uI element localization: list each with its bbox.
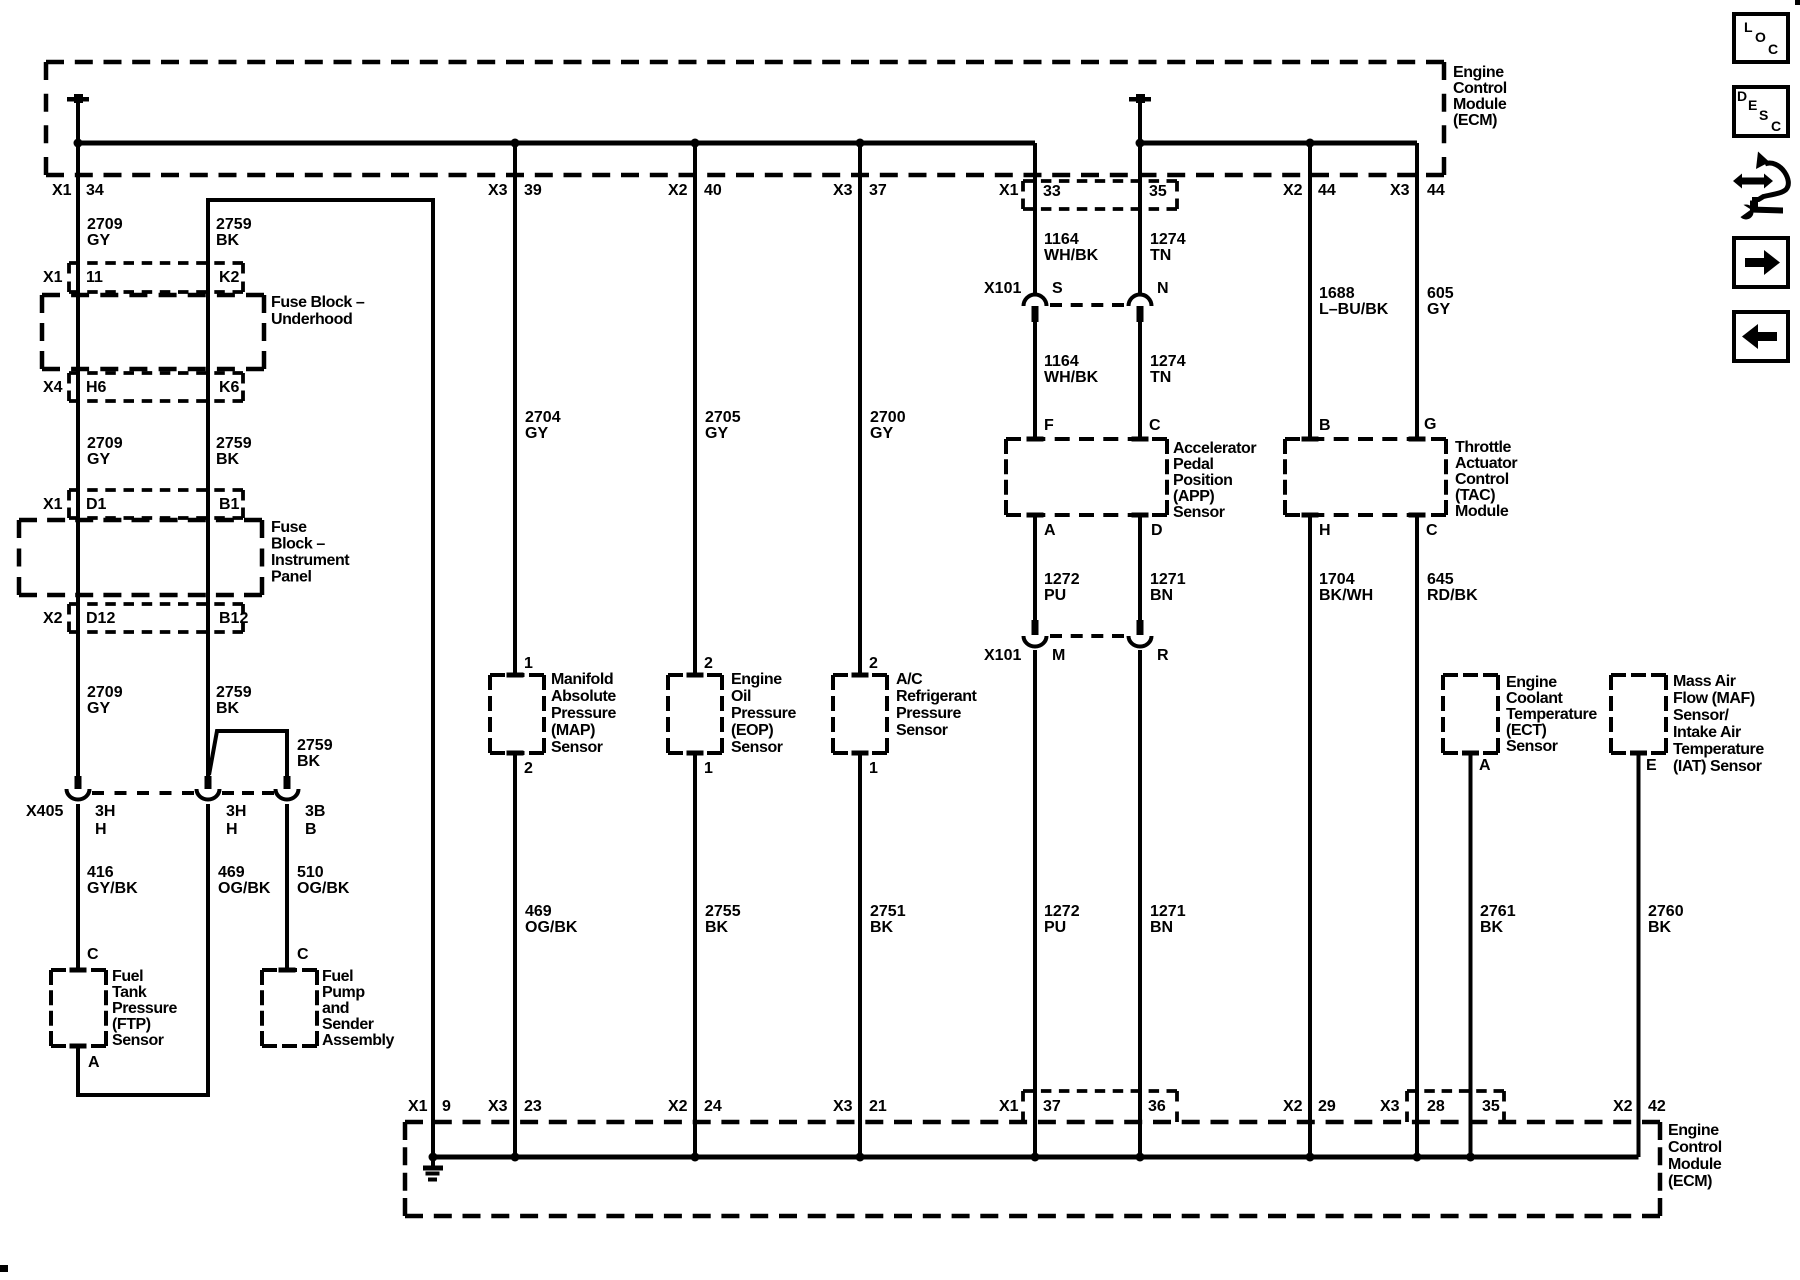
- svg-text:2761: 2761: [1480, 903, 1516, 920]
- svg-text:X3: X3: [488, 1098, 508, 1115]
- connector row X2-D12 / B12 dotted box: [43, 604, 248, 632]
- pin X1 34 (ECM): [52, 182, 104, 199]
- svg-text:X2: X2: [43, 610, 63, 627]
- label 1271 BN (lower): [1150, 903, 1186, 936]
- svg-text:2: 2: [524, 760, 533, 777]
- svg-text:1272: 1272: [1044, 903, 1080, 920]
- label 2761 BK: [1480, 903, 1516, 936]
- pin X2 29 (ECM bottom): [1283, 1098, 1336, 1115]
- svg-text:(APP): (APP): [1173, 488, 1214, 505]
- svg-text:23: 23: [524, 1098, 542, 1115]
- svg-text:X3: X3: [1390, 182, 1410, 199]
- label Engine Control Module (ECM) top: [1453, 64, 1507, 129]
- svg-text:GY: GY: [87, 232, 110, 249]
- label 1164 WH/BK (upper): [1044, 231, 1099, 264]
- Fuse Block - Underhood dashed box: [42, 295, 264, 369]
- Throttle Actuator Control (TAC) Module dashed box: [1285, 437, 1446, 518]
- label Engine Oil Pressure (EOP) Sensor: [731, 671, 796, 756]
- svg-text:BK: BK: [1648, 919, 1672, 936]
- wire 469 OG/BK from X405 to FTP sensor pin A: [78, 804, 208, 1095]
- svg-text:G: G: [1424, 416, 1436, 433]
- label Fuse Block - Underhood: [271, 294, 365, 328]
- svg-text:M: M: [1052, 647, 1065, 664]
- label X405: [26, 803, 63, 820]
- svg-text:K6: K6: [219, 379, 240, 396]
- label pin E (MAF): [1646, 757, 1657, 774]
- svg-text:X405: X405: [26, 803, 63, 820]
- svg-text:33: 33: [1043, 183, 1061, 200]
- svg-text:B1: B1: [219, 496, 240, 513]
- wire 1704 BK/WH from TAC pin H to ECM X2-29: [1308, 515, 1312, 1157]
- svg-text:24: 24: [704, 1098, 722, 1115]
- svg-text:A: A: [1044, 522, 1056, 539]
- label Engine Control Module (ECM) bottom: [1668, 1122, 1722, 1190]
- junction dots on ground bus: [429, 1153, 1476, 1162]
- svg-text:C: C: [1149, 417, 1161, 434]
- connector X405 pin H (left) male and female halves: [67, 776, 90, 800]
- svg-text:35: 35: [1149, 183, 1167, 200]
- svg-text:Coolant: Coolant: [1506, 690, 1564, 707]
- pin X3 39 (ECM): [488, 182, 542, 199]
- svg-text:469: 469: [525, 903, 552, 920]
- Fuse Block - Instrument Panel dashed box: [19, 520, 262, 595]
- label 2709 GY (lower): [87, 684, 123, 717]
- svg-text:40: 40: [704, 182, 722, 199]
- connector X405 pin H (middle) male and female halves: [197, 776, 220, 800]
- svg-text:Sensor: Sensor: [896, 722, 948, 739]
- svg-text:WH/BK: WH/BK: [1044, 369, 1099, 386]
- svg-text:H: H: [1319, 522, 1331, 539]
- wire 2705 GY from ECM X2-40 to EOP sensor: [693, 143, 697, 675]
- Engine Coolant Temperature (ECT) Sensor dashed box: [1443, 675, 1498, 756]
- svg-text:Sensor/: Sensor/: [1673, 707, 1730, 724]
- label pin C (TAC): [1426, 522, 1438, 539]
- label pin 1 (A/C): [869, 760, 878, 777]
- svg-text:2759: 2759: [216, 435, 252, 452]
- svg-text:L–BU/BK: L–BU/BK: [1319, 301, 1389, 318]
- svg-text:1164: 1164: [1044, 353, 1079, 370]
- svg-text:TN: TN: [1150, 369, 1171, 386]
- svg-text:Assembly: Assembly: [322, 1032, 395, 1049]
- svg-text:C: C: [1426, 522, 1438, 539]
- svg-text:Fuel: Fuel: [322, 968, 353, 985]
- svg-text:(IAT) Sensor: (IAT) Sensor: [1673, 758, 1762, 775]
- svg-text:35: 35: [1482, 1098, 1500, 1115]
- wire 1272 PU from APP pin A (upper): [1033, 515, 1037, 620]
- svg-text:RD/BK: RD/BK: [1427, 587, 1478, 604]
- label 2709 GY (upper): [87, 216, 123, 249]
- label 2704 GY: [525, 409, 561, 442]
- label 2759 BK (middle): [216, 435, 252, 468]
- svg-text:X1: X1: [999, 182, 1019, 199]
- svg-text:605: 605: [1427, 285, 1454, 302]
- wire 1164 WH/BK (lower) to APP pin F: [1033, 322, 1037, 439]
- svg-text:Pump: Pump: [322, 984, 365, 1001]
- svg-text:510: 510: [297, 864, 324, 881]
- wire 1688 L-BU/BK from ECM X2-44 to TAC pin B: [1308, 143, 1312, 439]
- svg-text:(ECT): (ECT): [1506, 722, 1547, 739]
- svg-text:Control: Control: [1668, 1139, 1722, 1156]
- svg-text:2705: 2705: [705, 409, 741, 426]
- svg-text:1688: 1688: [1319, 285, 1355, 302]
- svg-text:Pressure: Pressure: [551, 705, 616, 722]
- label Fuel Pump and Sender Assembly: [322, 968, 395, 1049]
- svg-text:Sensor: Sensor: [1506, 738, 1558, 755]
- svg-text:42: 42: [1648, 1098, 1666, 1115]
- Accelerator Pedal Position (APP) Sensor dashed box: [1006, 437, 1167, 518]
- svg-text:37: 37: [1043, 1098, 1061, 1115]
- svg-text:Fuse: Fuse: [271, 519, 307, 536]
- pin X3 23 (ECM bottom): [488, 1098, 542, 1115]
- svg-text:Engine: Engine: [1453, 64, 1504, 81]
- wire 2759 BK branch to pin 3B: [209, 731, 287, 776]
- label 469 OG/BK (MAP): [525, 903, 578, 936]
- svg-text:E: E: [1748, 97, 1757, 113]
- svg-text:Underhood: Underhood: [271, 311, 352, 328]
- connector X405 dashed link line: [92, 791, 274, 795]
- svg-text:X3: X3: [1380, 1098, 1400, 1115]
- label X101 (upper): [984, 280, 1021, 297]
- label 3B B (right): [305, 803, 325, 838]
- wire 1164 WH/BK from ECM X1-33 (upper): [1033, 143, 1037, 296]
- svg-text:Intake Air: Intake Air: [1673, 724, 1741, 741]
- label Fuse Block - Instrument Panel: [271, 519, 350, 586]
- label pin D (APP): [1151, 522, 1163, 539]
- icon wrench with arrows: [1733, 152, 1788, 222]
- svg-text:X1: X1: [52, 182, 72, 199]
- Mass Air Flow (MAF) / IAT Sensor dashed box: [1611, 675, 1666, 756]
- svg-text:BK: BK: [216, 451, 240, 468]
- label 2760 BK: [1648, 903, 1684, 936]
- power feed symbol B+ right: [1129, 94, 1151, 143]
- label 416 GY/BK: [87, 864, 138, 897]
- svg-text:GY: GY: [1427, 301, 1450, 318]
- svg-text:O: O: [1755, 29, 1766, 45]
- svg-text:H: H: [226, 821, 238, 838]
- svg-text:Actuator: Actuator: [1455, 455, 1517, 472]
- svg-text:1271: 1271: [1150, 903, 1186, 920]
- svg-text:1: 1: [869, 760, 878, 777]
- svg-text:A: A: [88, 1054, 100, 1071]
- svg-text:2755: 2755: [705, 903, 741, 920]
- svg-text:BK: BK: [216, 700, 240, 717]
- svg-text:2751: 2751: [870, 903, 906, 920]
- wire 1271 BN from APP pin D (upper): [1138, 515, 1142, 620]
- label 2759 BK (lower): [216, 684, 252, 717]
- wire 1274 TN from ECM 35 (upper): [1138, 143, 1142, 296]
- svg-text:2704: 2704: [525, 409, 561, 426]
- pin X2 40 (ECM): [668, 182, 722, 199]
- wire 2755 BK from EOP sensor to ECM X2-24: [693, 753, 697, 1157]
- label Throttle Actuator Control (TAC) Module: [1455, 439, 1517, 520]
- label 605 GY: [1427, 285, 1454, 318]
- label 645 RD/BK: [1427, 571, 1478, 604]
- svg-text:BK/WH: BK/WH: [1319, 587, 1373, 604]
- icon box arrow right: [1734, 238, 1788, 287]
- wire 2700 GY from ECM X3-37 to A/C pressure sensor: [858, 143, 862, 675]
- label 2759 BK (branch): [297, 737, 333, 770]
- svg-text:Absolute: Absolute: [551, 688, 616, 705]
- wire 2751 BK from A/C sensor to ECM X3-21: [858, 753, 862, 1157]
- svg-text:C: C: [297, 946, 309, 963]
- svg-text:1274: 1274: [1150, 353, 1186, 370]
- page corner mark bottom left: [0, 1265, 8, 1272]
- svg-text:C: C: [1771, 118, 1781, 134]
- svg-text:Oil: Oil: [731, 688, 751, 705]
- label 1704 BK/WH: [1319, 571, 1373, 604]
- label pin C (FTP): [87, 946, 99, 963]
- pin X3 37 (ECM): [833, 182, 887, 199]
- svg-text:X2: X2: [1283, 1098, 1303, 1115]
- svg-text:Accelerator: Accelerator: [1173, 440, 1256, 457]
- svg-text:Module: Module: [1668, 1156, 1722, 1173]
- label pin C (fuel pump): [297, 946, 309, 963]
- svg-text:Panel: Panel: [271, 569, 311, 586]
- pin X1 33 and 35 (ECM) with dotted connector box: [999, 181, 1177, 209]
- svg-text:OG/BK: OG/BK: [525, 919, 578, 936]
- power feed symbol B+ left: [67, 94, 89, 143]
- svg-text:X3: X3: [833, 182, 853, 199]
- svg-text:C: C: [1768, 41, 1778, 57]
- svg-text:2709: 2709: [87, 684, 123, 701]
- svg-text:GY: GY: [87, 700, 110, 717]
- label 1274 TN (lower): [1150, 353, 1186, 386]
- label 1164 WH/BK (lower): [1044, 353, 1099, 386]
- svg-text:BK: BK: [1480, 919, 1504, 936]
- svg-text:2709: 2709: [87, 216, 123, 233]
- ground symbol: [423, 1157, 443, 1182]
- svg-text:44: 44: [1318, 182, 1336, 199]
- svg-text:36: 36: [1148, 1098, 1166, 1115]
- svg-text:R: R: [1157, 647, 1169, 664]
- svg-text:469: 469: [218, 864, 245, 881]
- svg-text:Engine: Engine: [731, 671, 782, 688]
- svg-text:Block –: Block –: [271, 536, 325, 553]
- svg-text:Module: Module: [1453, 96, 1507, 113]
- svg-text:GY: GY: [705, 425, 728, 442]
- svg-text:X2: X2: [1283, 182, 1303, 199]
- pin X2 42 (ECM bottom): [1613, 1098, 1666, 1115]
- wire 2760 BK from MAF sensor to ECM X2-42: [1637, 753, 1641, 1157]
- svg-text:X101: X101: [984, 647, 1021, 664]
- label 1271 BN (upper): [1150, 571, 1186, 604]
- pin X1 37 and 36 (ECM bottom) with dotted connector box: [999, 1091, 1177, 1122]
- svg-text:Position: Position: [1173, 472, 1233, 489]
- svg-text:TN: TN: [1150, 247, 1171, 264]
- svg-text:S: S: [1052, 280, 1063, 297]
- svg-text:H: H: [95, 821, 107, 838]
- svg-text:X1: X1: [408, 1098, 428, 1115]
- svg-text:B12: B12: [219, 610, 248, 627]
- wire 510 OG/BK to fuel pump pin C: [285, 804, 289, 968]
- svg-text:GY: GY: [87, 451, 110, 468]
- svg-text:Engine: Engine: [1506, 674, 1557, 691]
- icon box arrow left: [1734, 312, 1788, 361]
- label 2705 GY: [705, 409, 741, 442]
- svg-text:X101: X101: [984, 280, 1021, 297]
- svg-text:Fuse Block –: Fuse Block –: [271, 294, 365, 311]
- label pin G (TAC): [1424, 416, 1436, 433]
- svg-text:28: 28: [1427, 1098, 1445, 1115]
- connector row X1-11 / K2 dotted box: [43, 263, 243, 292]
- label 510 OG/BK: [297, 864, 350, 897]
- svg-text:Fuel: Fuel: [112, 968, 143, 985]
- svg-text:Pressure: Pressure: [896, 705, 961, 722]
- svg-text:Module: Module: [1455, 503, 1509, 520]
- svg-text:Sensor: Sensor: [112, 1032, 164, 1049]
- wire 645 RD/BK from TAC pin C to ECM X3-28: [1415, 515, 1419, 1157]
- svg-text:OG/BK: OG/BK: [218, 880, 271, 897]
- connector X101 pin S: [1024, 295, 1047, 323]
- label 2709 GY (middle): [87, 435, 123, 468]
- label pin H (TAC): [1319, 522, 1331, 539]
- wire 1274 TN (lower) to APP pin C: [1138, 322, 1142, 439]
- pin X3 28 and 35 (ECM bottom) with dotted connector box: [1380, 1091, 1504, 1122]
- svg-text:X2: X2: [668, 182, 688, 199]
- svg-text:PU: PU: [1044, 919, 1066, 936]
- svg-text:2759: 2759: [216, 684, 252, 701]
- svg-text:A/C: A/C: [896, 671, 923, 688]
- connector X101 pin N: [1129, 295, 1152, 323]
- svg-text:X1: X1: [43, 496, 63, 513]
- wire 1272 PU (lower) to ECM X1-37: [1033, 650, 1037, 1157]
- pin X2 44 (ECM): [1283, 182, 1336, 199]
- wire 1271 BN (lower) to ECM 36: [1138, 650, 1142, 1157]
- wire 2759 BK ground loop (ECM X1-9 up and over to fuse block): [208, 200, 433, 1157]
- connector row X1-D1 / B1 dotted box: [43, 490, 243, 518]
- label Manifold Absolute Pressure (MAP) Sensor: [551, 671, 616, 756]
- label 2759 BK (upper): [216, 216, 252, 249]
- wire 416 GY/BK to FTP sensor pin C: [76, 804, 80, 968]
- svg-text:3B: 3B: [305, 803, 325, 820]
- page corner mark top right: [1795, 0, 1800, 5]
- svg-text:(ECM): (ECM): [1668, 1173, 1712, 1190]
- svg-text:D1: D1: [86, 496, 107, 513]
- svg-text:Tank: Tank: [112, 984, 147, 1001]
- label pin 2 (A/C): [869, 655, 878, 672]
- svg-text:2760: 2760: [1648, 903, 1684, 920]
- svg-text:L: L: [1744, 19, 1753, 35]
- label Mass Air Flow (MAF) Sensor / Intake Air Temperature (IAT) Sensor: [1673, 673, 1764, 775]
- svg-text:Pressure: Pressure: [731, 705, 796, 722]
- label pin C (APP): [1149, 417, 1161, 434]
- label 2751 BK: [870, 903, 906, 936]
- Manifold Absolute Pressure (MAP) Sensor dashed box: [490, 673, 544, 756]
- label R: [1157, 647, 1169, 664]
- svg-text:BK: BK: [705, 919, 729, 936]
- svg-text:E: E: [1646, 757, 1657, 774]
- svg-text:3H: 3H: [226, 803, 246, 820]
- svg-text:S: S: [1759, 107, 1768, 123]
- label pin 2 (EOP): [704, 655, 713, 672]
- label pin 2 (MAP): [524, 760, 533, 777]
- svg-text:Manifold: Manifold: [551, 671, 613, 688]
- label Fuel Tank Pressure (FTP) Sensor: [112, 968, 177, 1049]
- label 2755 BK: [705, 903, 741, 936]
- svg-text:21: 21: [869, 1098, 887, 1115]
- ground bus wire inside bottom ECM: [433, 1155, 1639, 1160]
- svg-text:Instrument: Instrument: [271, 552, 350, 569]
- wire 469 OG/BK from MAP sensor to ECM X3-23: [513, 753, 517, 1157]
- svg-text:37: 37: [869, 182, 887, 199]
- label Engine Coolant Temperature (ECT) Sensor: [1506, 674, 1597, 755]
- svg-text:BK: BK: [870, 919, 894, 936]
- svg-text:39: 39: [524, 182, 542, 199]
- svg-text:44: 44: [1427, 182, 1445, 199]
- svg-text:Temperature: Temperature: [1506, 706, 1597, 723]
- label pin F (APP): [1044, 417, 1054, 434]
- svg-text:D: D: [1737, 88, 1747, 104]
- connector X405 pin B (right) male and female halves: [276, 776, 299, 800]
- label 1688 L-BU/BK: [1319, 285, 1389, 318]
- svg-text:1272: 1272: [1044, 571, 1080, 588]
- svg-text:A: A: [1479, 757, 1491, 774]
- wire 605 GY from ECM X3-44 to TAC pin G: [1415, 143, 1419, 439]
- svg-text:1164: 1164: [1044, 231, 1079, 248]
- label pin A (FTP): [88, 1054, 100, 1071]
- svg-text:OG/BK: OG/BK: [297, 880, 350, 897]
- svg-text:BN: BN: [1150, 587, 1173, 604]
- label pin 1 (MAP): [524, 655, 533, 672]
- svg-text:(FTP): (FTP): [112, 1016, 151, 1033]
- label pin 1 (EOP): [704, 760, 713, 777]
- svg-text:B: B: [305, 821, 317, 838]
- svg-text:X3: X3: [488, 182, 508, 199]
- label pin B (TAC): [1319, 417, 1331, 434]
- connector row X4-H6 / K6 dotted box: [43, 373, 243, 401]
- junction dots on top bus: [74, 139, 1315, 148]
- svg-text:Engine: Engine: [1668, 1122, 1719, 1139]
- wire 2709 GY from ECM X1-34 down to X405: [76, 143, 80, 776]
- label Accelerator Pedal Position (APP) Sensor: [1173, 440, 1256, 521]
- A/C Refrigerant Pressure Sensor dashed box: [833, 673, 887, 756]
- svg-text:2: 2: [704, 655, 713, 672]
- label 1272 PU (lower): [1044, 903, 1080, 936]
- svg-text:X1: X1: [999, 1098, 1019, 1115]
- svg-text:N: N: [1157, 280, 1169, 297]
- label 1272 PU (upper): [1044, 571, 1080, 604]
- svg-text:(ECM): (ECM): [1453, 112, 1497, 129]
- svg-text:2759: 2759: [216, 216, 252, 233]
- svg-text:1274: 1274: [1150, 231, 1186, 248]
- svg-text:X2: X2: [1613, 1098, 1633, 1115]
- svg-text:Control: Control: [1455, 471, 1509, 488]
- svg-text:1: 1: [704, 760, 713, 777]
- Fuel Tank Pressure (FTP) Sensor dashed box: [51, 968, 106, 1049]
- svg-text:GY/BK: GY/BK: [87, 880, 138, 897]
- label 3H H (middle): [226, 803, 246, 838]
- svg-text:BK: BK: [216, 232, 240, 249]
- wire 2704 GY from ECM X3-39 to MAP sensor: [513, 143, 517, 675]
- label 3H H (left): [95, 803, 115, 838]
- svg-text:D: D: [1151, 522, 1163, 539]
- connector X101 upper dashed link: [1050, 303, 1124, 307]
- svg-text:H6: H6: [86, 379, 107, 396]
- svg-text:416: 416: [87, 864, 114, 881]
- pin X2 24 (ECM bottom): [668, 1098, 722, 1115]
- svg-text:645: 645: [1427, 571, 1454, 588]
- svg-text:Sensor: Sensor: [731, 739, 783, 756]
- ECM (Engine Control Module) top dashed box: [46, 62, 1444, 175]
- svg-text:Control: Control: [1453, 80, 1507, 97]
- Fuel Pump and Sender Assembly dashed box: [262, 968, 317, 1047]
- label M: [1052, 647, 1065, 664]
- svg-text:X2: X2: [668, 1098, 688, 1115]
- label S: [1052, 280, 1063, 297]
- svg-text:Throttle: Throttle: [1455, 439, 1511, 456]
- svg-text:Temperature: Temperature: [1673, 741, 1764, 758]
- label X101 (lower): [984, 647, 1021, 664]
